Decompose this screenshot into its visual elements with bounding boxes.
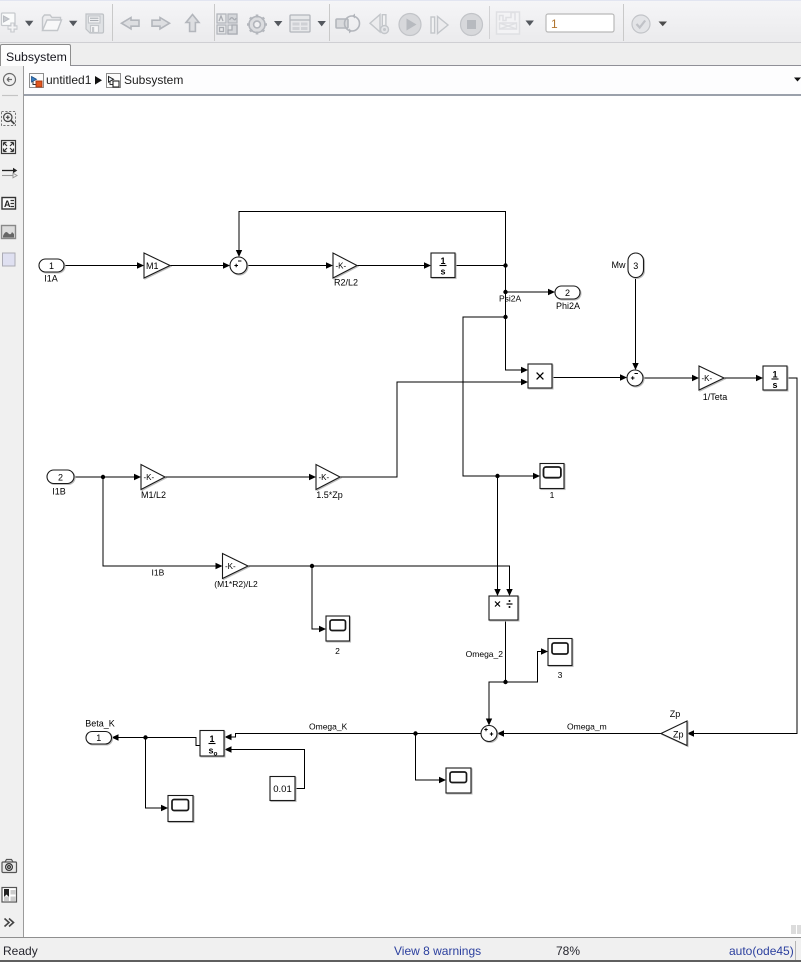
up arrow icon bbox=[186, 15, 199, 32]
report icon bbox=[2, 888, 17, 903]
svg-text:Omega_K: Omega_K bbox=[309, 722, 348, 732]
integrator 1/s (1) bbox=[431, 253, 455, 278]
model icon untitled1 bbox=[30, 74, 44, 88]
scope Scope1 bbox=[540, 464, 564, 489]
image icon bbox=[2, 226, 16, 239]
svg-text:1: 1 bbox=[49, 261, 54, 271]
annotation icon bbox=[2, 198, 16, 210]
stop icon bbox=[461, 14, 483, 36]
svg-text:R2/L2: R2/L2 bbox=[334, 278, 358, 288]
wire feedback loop to Sum1 top bbox=[236, 212, 506, 266]
scope Scope4 bbox=[446, 768, 471, 793]
svg-text:Beta_K: Beta_K bbox=[85, 719, 115, 729]
svg-text:1: 1 bbox=[550, 490, 555, 500]
wire M1/L2 to 1.5*Zp bbox=[165, 474, 316, 480]
gain M1/L2 bbox=[141, 465, 165, 490]
wire 1/Teta to Integrator2 bbox=[724, 375, 763, 381]
gain 1/Teta bbox=[699, 366, 724, 390]
update diagram icon bbox=[336, 14, 360, 34]
wire Mw down to Sum2 top bbox=[632, 278, 638, 371]
svg-text:Psi2A: Psi2A bbox=[499, 294, 522, 304]
svg-text:o: o bbox=[214, 751, 218, 758]
scope Scope5 bbox=[168, 796, 193, 822]
main toolbar bbox=[0, 0, 801, 43]
svg-text:1: 1 bbox=[551, 17, 558, 31]
svg-text:2: 2 bbox=[335, 646, 340, 656]
svg-text:0.01: 0.01 bbox=[273, 784, 292, 795]
constant 0.01 bbox=[270, 777, 295, 801]
wire I1A to M1 bbox=[64, 262, 144, 268]
open folder icon bbox=[43, 15, 78, 31]
wire branch down to Scope2 bbox=[312, 566, 326, 632]
product Product bbox=[528, 364, 552, 388]
wire Sum2 to 1/Teta bbox=[643, 375, 699, 381]
gain M1 bbox=[144, 253, 170, 278]
svg-text:-K-: -K- bbox=[319, 473, 330, 482]
sum Sum3 bbox=[481, 726, 497, 742]
svg-text:Zp: Zp bbox=[670, 709, 681, 719]
back arrow icon bbox=[122, 18, 140, 29]
status bar bbox=[0, 937, 801, 962]
svg-text:Subsystem: Subsystem bbox=[124, 73, 183, 87]
run icon bbox=[399, 14, 421, 36]
svg-text:M1: M1 bbox=[146, 261, 159, 271]
wire Integrator2 right-down to Zp bbox=[687, 378, 797, 737]
step back icon bbox=[370, 15, 389, 34]
wire Omega_2 to Sum3 top bbox=[486, 682, 506, 726]
gain R2/L2 bbox=[333, 253, 357, 278]
wire branch down to Scope5 bbox=[146, 738, 169, 812]
svg-text:I1A: I1A bbox=[44, 274, 58, 284]
gain Zp (flipped) bbox=[661, 721, 687, 746]
wire Psi2A node down bbox=[505, 292, 507, 317]
svg-text:1: 1 bbox=[209, 734, 214, 744]
fit to view icon bbox=[2, 141, 16, 154]
svg-text:1/Teta: 1/Teta bbox=[703, 392, 728, 402]
wire 0.01 loop to 1/s0 bottom input bbox=[225, 746, 305, 788]
output port 1 Beta_K bbox=[86, 732, 112, 745]
new model icon bbox=[2, 13, 34, 33]
camera icon bbox=[2, 860, 17, 873]
wire Psi2A to Phi2A port bbox=[506, 289, 556, 295]
wire Omega_2 branch to Scope3 bbox=[506, 648, 549, 682]
svg-text:s: s bbox=[440, 267, 445, 277]
wire 1.5*Zp up to Product in2 bbox=[340, 379, 528, 477]
svg-text:Mw: Mw bbox=[612, 260, 626, 270]
library browser icon bbox=[217, 14, 237, 34]
back circle button bbox=[4, 74, 16, 86]
scope Scope3 bbox=[548, 639, 572, 666]
output port 2 Phi2A bbox=[555, 286, 580, 299]
svg-text:M1/L2: M1/L2 bbox=[141, 490, 166, 500]
wire Sum1 to R2/L2 bbox=[247, 262, 333, 268]
gear icon bbox=[247, 15, 282, 35]
left palette rail bbox=[0, 66, 24, 937]
input port 1 I1A bbox=[39, 259, 64, 272]
breadcrumb bar bbox=[0, 66, 801, 94]
divide block bbox=[489, 596, 518, 620]
svg-text:untitled1: untitled1 bbox=[46, 73, 92, 87]
svg-text:3: 3 bbox=[633, 261, 638, 271]
sum Sum2 bbox=[627, 370, 643, 386]
svg-text:-K-: -K- bbox=[225, 562, 236, 571]
tab bar bbox=[0, 43, 801, 66]
svg-text:A: A bbox=[4, 199, 11, 209]
gain (M1*R2)/L2 bbox=[223, 554, 249, 579]
expand chevrons bbox=[5, 919, 14, 927]
lavender swatch bbox=[3, 253, 16, 266]
wire branch left-down to Scope1 bbox=[463, 317, 540, 479]
integrator 1/s (2) bbox=[763, 366, 787, 390]
svg-text:1: 1 bbox=[440, 256, 445, 266]
svg-text:1.5*Zp: 1.5*Zp bbox=[316, 490, 343, 500]
wire Product to Sum2 bbox=[552, 374, 627, 380]
gain 1.5*Zp bbox=[316, 465, 340, 490]
subsystem icon bbox=[107, 74, 121, 88]
model settings table icon bbox=[290, 15, 326, 32]
wire (M1*R2)/L2 to Divide in2 bbox=[248, 566, 513, 596]
wire branch down to Scope4 bbox=[416, 734, 447, 784]
sum Sum1 bbox=[230, 257, 247, 274]
svg-text:Phi2A: Phi2A bbox=[556, 301, 580, 311]
svg-text:1: 1 bbox=[96, 733, 101, 743]
input port 3 Mw bbox=[628, 253, 644, 278]
wire I1B branch down to (M1*R2)/L2 bbox=[103, 477, 223, 569]
rail separator bbox=[2, 95, 18, 97]
stop time field bbox=[546, 14, 614, 32]
svg-text:I1B: I1B bbox=[52, 487, 66, 497]
input port 2 I1B bbox=[47, 470, 74, 484]
wire junction down to Psi2A node bbox=[505, 266, 507, 293]
wire branch down to Product in1 bbox=[506, 317, 529, 373]
zoom icon bbox=[2, 112, 16, 126]
svg-text:I1B: I1B bbox=[152, 568, 165, 578]
svg-text:2: 2 bbox=[58, 473, 63, 483]
svg-text:s: s bbox=[772, 380, 777, 390]
update check icon bbox=[632, 15, 667, 33]
scope Scope2 bbox=[326, 616, 350, 641]
wire R2/L2 to Integrator1 bbox=[357, 262, 431, 268]
svg-text:-K-: -K- bbox=[336, 262, 347, 271]
simulation data inspector icon bbox=[497, 12, 534, 34]
svg-text:2: 2 bbox=[565, 288, 570, 298]
svg-text:(M1*R2)/L2: (M1*R2)/L2 bbox=[214, 579, 258, 589]
integrator 1/s0 (flipped) bbox=[200, 731, 224, 758]
svg-text:-K-: -K- bbox=[144, 473, 155, 482]
svg-text:Omega_m: Omega_m bbox=[567, 722, 607, 732]
wire 1/s0 output to Beta_K bbox=[112, 734, 201, 745]
wire M1 to Sum1 bbox=[170, 262, 230, 268]
svg-text:Omega_2: Omega_2 bbox=[466, 649, 504, 659]
forward arrow icon bbox=[152, 18, 170, 29]
wire Sum3 output to 1/s0 top input bbox=[225, 734, 482, 741]
svg-text:-K-: -K- bbox=[702, 374, 713, 383]
save icon bbox=[86, 14, 104, 33]
wire Integrator1 to junction bbox=[455, 265, 506, 267]
wire Divide output down bbox=[505, 620, 507, 682]
signal flow icon bbox=[2, 168, 17, 178]
wire I1B to M1/L2 bbox=[74, 474, 141, 480]
step forward icon bbox=[431, 17, 448, 34]
svg-text:Zp: Zp bbox=[673, 730, 684, 740]
svg-text:3: 3 bbox=[558, 670, 563, 680]
wire Scope1 branch down to Divide in1 bbox=[494, 476, 500, 596]
svg-text:1: 1 bbox=[772, 370, 777, 380]
wire Zp to Sum3 bbox=[497, 730, 661, 736]
